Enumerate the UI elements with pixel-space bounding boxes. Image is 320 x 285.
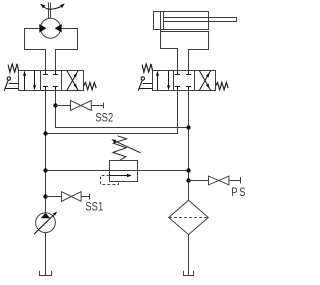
svg-text:SS1: SS1 (85, 199, 103, 213)
svg-text:S: S (239, 185, 245, 199)
svg-text:SS2: SS2 (95, 110, 113, 124)
svg-text:P: P (231, 185, 237, 199)
